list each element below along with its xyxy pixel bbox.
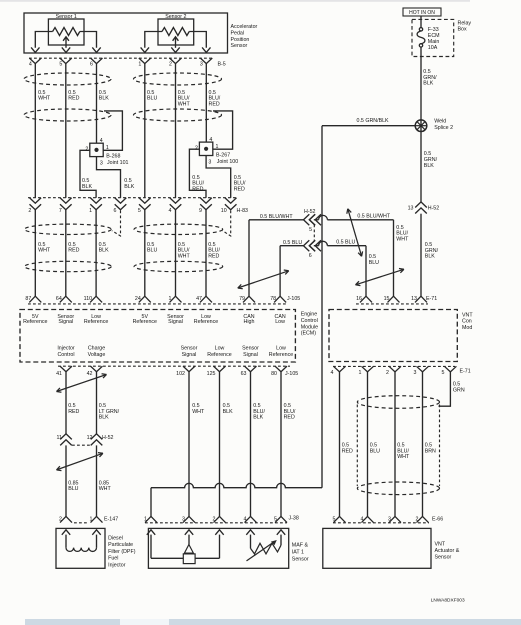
- svg-text:BLK: BLK: [99, 248, 109, 254]
- svg-text:Accelerator: Accelerator: [231, 24, 258, 30]
- svg-text:J-105: J-105: [287, 296, 300, 302]
- svg-text:1: 1: [359, 370, 362, 376]
- svg-text:H-52: H-52: [102, 435, 114, 441]
- svg-text:1: 1: [90, 516, 93, 522]
- svg-text:Reference: Reference: [133, 319, 157, 325]
- svg-text:Injector: Injector: [57, 346, 75, 352]
- svg-text:Pedal: Pedal: [231, 30, 245, 36]
- svg-text:Signal: Signal: [182, 352, 197, 358]
- svg-text:13: 13: [408, 205, 414, 211]
- svg-text:Signal: Signal: [58, 319, 73, 325]
- svg-text:BLU: BLU: [370, 448, 380, 454]
- svg-text:Injector: Injector: [108, 563, 126, 569]
- svg-text:B-267: B-267: [216, 153, 230, 159]
- svg-text:1: 1: [89, 208, 92, 214]
- svg-text:E-66: E-66: [432, 516, 443, 522]
- svg-text:79: 79: [239, 296, 245, 302]
- svg-text:1: 1: [144, 516, 147, 522]
- svg-text:5: 5: [441, 370, 444, 376]
- svg-text:Reference: Reference: [269, 352, 293, 358]
- svg-text:GRN: GRN: [453, 388, 465, 394]
- svg-text:RED: RED: [208, 254, 219, 260]
- svg-text:47: 47: [196, 296, 202, 302]
- svg-text:WHT: WHT: [397, 454, 410, 460]
- svg-text:WHT: WHT: [396, 237, 409, 243]
- svg-text:2: 2: [213, 516, 216, 522]
- svg-text:13: 13: [411, 296, 417, 302]
- svg-text:Sensor 2: Sensor 2: [165, 14, 186, 20]
- svg-text:Low: Low: [276, 346, 286, 352]
- svg-text:BLK: BLK: [425, 254, 435, 260]
- svg-text:4: 4: [244, 516, 247, 522]
- svg-text:4: 4: [100, 138, 103, 144]
- svg-text:4: 4: [361, 516, 364, 522]
- svg-text:MAF &: MAF &: [292, 542, 309, 548]
- svg-text:BLK: BLK: [223, 409, 233, 415]
- svg-text:5: 5: [274, 516, 277, 522]
- svg-text:Signal: Signal: [243, 352, 258, 358]
- svg-text:5: 5: [333, 516, 336, 522]
- svg-text:2: 2: [85, 146, 88, 152]
- svg-text:WHT: WHT: [178, 254, 191, 260]
- svg-text:E-147: E-147: [104, 516, 118, 522]
- svg-text:Position: Position: [231, 37, 250, 43]
- svg-text:4: 4: [331, 370, 334, 376]
- svg-text:2: 2: [386, 370, 389, 376]
- svg-text:Con: Con: [462, 319, 472, 325]
- svg-text:BLK: BLK: [124, 184, 134, 190]
- svg-text:J-105: J-105: [285, 371, 298, 377]
- svg-text:Joint 100: Joint 100: [217, 159, 239, 165]
- svg-text:J-38: J-38: [289, 515, 299, 521]
- svg-text:16: 16: [356, 296, 362, 302]
- svg-text:WHT: WHT: [192, 409, 205, 415]
- svg-text:64: 64: [56, 296, 62, 302]
- svg-text:RED: RED: [284, 415, 295, 421]
- svg-text:2: 2: [169, 61, 172, 67]
- svg-text:2: 2: [28, 208, 31, 214]
- svg-text:Fuel: Fuel: [108, 556, 118, 562]
- svg-text:Control: Control: [57, 352, 74, 358]
- svg-text:H-52: H-52: [304, 209, 316, 215]
- svg-text:Mod: Mod: [462, 325, 472, 331]
- svg-text:BLK: BLK: [424, 163, 434, 169]
- svg-text:Joint 101: Joint 101: [107, 160, 129, 166]
- svg-text:Reference: Reference: [23, 319, 47, 325]
- svg-text:2: 2: [416, 516, 419, 522]
- svg-text:WHT: WHT: [178, 101, 191, 107]
- svg-text:BLU: BLU: [369, 260, 379, 266]
- svg-text:BLK: BLK: [99, 415, 109, 421]
- svg-text:Engine: Engine: [301, 312, 318, 318]
- svg-text:Reference: Reference: [84, 319, 108, 325]
- svg-text:Signal: Signal: [168, 319, 183, 325]
- svg-text:Sensor: Sensor: [231, 43, 248, 49]
- svg-text:WHT: WHT: [99, 486, 112, 492]
- svg-text:H-52: H-52: [428, 205, 440, 211]
- svg-text:Diesel: Diesel: [108, 535, 123, 541]
- svg-text:H-83: H-83: [237, 208, 249, 214]
- svg-text:1: 1: [216, 144, 219, 150]
- svg-text:3: 3: [208, 160, 211, 166]
- svg-text:HOT IN ON: HOT IN ON: [409, 10, 435, 16]
- svg-text:Low: Low: [275, 319, 285, 325]
- svg-text:63: 63: [241, 371, 247, 377]
- svg-text:RED: RED: [68, 409, 79, 415]
- svg-text:0.5 BLU/WHT: 0.5 BLU/WHT: [260, 214, 293, 220]
- svg-text:1: 1: [138, 61, 141, 67]
- svg-text:RED: RED: [68, 96, 79, 102]
- svg-text:Filter (DPF): Filter (DPF): [108, 549, 136, 555]
- svg-text:RED: RED: [209, 101, 220, 107]
- svg-text:Sensor 1: Sensor 1: [56, 14, 77, 20]
- svg-text:6: 6: [309, 253, 312, 259]
- svg-text:RED: RED: [192, 187, 203, 193]
- svg-text:102: 102: [176, 371, 185, 377]
- svg-text:3: 3: [388, 516, 391, 522]
- svg-text:5: 5: [309, 227, 312, 233]
- svg-text:High: High: [244, 319, 255, 325]
- svg-text:Actuator &: Actuator &: [435, 548, 460, 554]
- svg-text:24: 24: [135, 296, 141, 302]
- svg-text:10A: 10A: [428, 45, 438, 51]
- svg-text:41: 41: [56, 371, 62, 377]
- svg-text:0.5 GRN/BLK: 0.5 GRN/BLK: [357, 118, 390, 124]
- svg-text:E-71: E-71: [426, 296, 437, 302]
- svg-text:Charge: Charge: [88, 346, 105, 352]
- svg-text:78: 78: [270, 296, 276, 302]
- svg-text:Sensor: Sensor: [292, 556, 309, 562]
- svg-text:BLU: BLU: [147, 248, 157, 254]
- svg-text:Splice 2: Splice 2: [434, 125, 453, 131]
- svg-text:2: 2: [59, 516, 62, 522]
- svg-text:E-71: E-71: [460, 369, 471, 375]
- svg-text:3: 3: [100, 161, 103, 167]
- svg-text:RED: RED: [234, 187, 245, 193]
- svg-text:Voltage: Voltage: [88, 352, 106, 358]
- svg-text:42: 42: [87, 371, 93, 377]
- svg-text:10: 10: [221, 208, 227, 214]
- svg-text:VNT: VNT: [462, 312, 473, 318]
- svg-text:WHT: WHT: [38, 248, 51, 254]
- svg-text:12: 12: [87, 435, 93, 441]
- svg-text:15: 15: [384, 296, 390, 302]
- svg-text:0.5 BLU: 0.5 BLU: [336, 240, 355, 246]
- svg-text:3: 3: [200, 61, 203, 67]
- svg-text:6: 6: [90, 61, 93, 67]
- svg-text:7: 7: [59, 208, 62, 214]
- svg-text:Sensor: Sensor: [242, 346, 259, 352]
- svg-text:80: 80: [271, 371, 277, 377]
- svg-text:4: 4: [209, 137, 212, 143]
- svg-text:(ECM): (ECM): [301, 331, 317, 337]
- svg-text:Box: Box: [458, 26, 467, 32]
- svg-text:125: 125: [207, 371, 216, 377]
- svg-text:BLU: BLU: [147, 96, 157, 102]
- svg-text:1: 1: [169, 296, 172, 302]
- svg-text:Sensor: Sensor: [181, 346, 198, 352]
- svg-text:5: 5: [59, 61, 62, 67]
- svg-text:Reference: Reference: [207, 352, 231, 358]
- svg-text:3: 3: [182, 516, 185, 522]
- svg-text:Reference: Reference: [194, 319, 218, 325]
- svg-text:B-268: B-268: [106, 154, 120, 160]
- svg-text:2: 2: [195, 145, 198, 151]
- svg-text:Control: Control: [301, 318, 318, 324]
- svg-text:9: 9: [199, 208, 202, 214]
- svg-text:B-5: B-5: [218, 61, 226, 67]
- svg-text:RED: RED: [342, 448, 353, 454]
- svg-text:87: 87: [25, 296, 31, 302]
- svg-text:WHT: WHT: [38, 96, 51, 102]
- svg-text:BLK: BLK: [82, 184, 92, 190]
- svg-text:4: 4: [169, 208, 172, 214]
- svg-text:RED: RED: [68, 248, 79, 254]
- svg-text:Particulate: Particulate: [108, 542, 133, 548]
- svg-text:11: 11: [57, 435, 63, 441]
- svg-text:BRN: BRN: [425, 448, 436, 454]
- svg-text:0.5 BLU: 0.5 BLU: [283, 240, 302, 246]
- svg-text:0.5 BLU/WHT: 0.5 BLU/WHT: [357, 213, 390, 219]
- svg-text:Sensor: Sensor: [435, 554, 452, 560]
- svg-text:VNT: VNT: [435, 542, 446, 548]
- svg-text:4: 4: [29, 61, 32, 67]
- svg-text:BLK: BLK: [423, 81, 433, 87]
- svg-text:IAT 1: IAT 1: [292, 549, 304, 555]
- svg-text:Low: Low: [215, 346, 225, 352]
- svg-text:BLU: BLU: [68, 486, 78, 492]
- svg-text:BLK: BLK: [253, 415, 263, 421]
- svg-text:5: 5: [138, 208, 141, 214]
- svg-text:Module: Module: [301, 324, 318, 330]
- svg-text:1: 1: [106, 145, 109, 151]
- svg-text:6: 6: [114, 208, 117, 214]
- svg-text:Weld: Weld: [434, 119, 446, 125]
- svg-text:LNWA8DXF003: LNWA8DXF003: [431, 598, 465, 604]
- svg-text:3: 3: [414, 370, 417, 376]
- svg-text:BLK: BLK: [99, 96, 109, 102]
- svg-text:110: 110: [84, 296, 92, 302]
